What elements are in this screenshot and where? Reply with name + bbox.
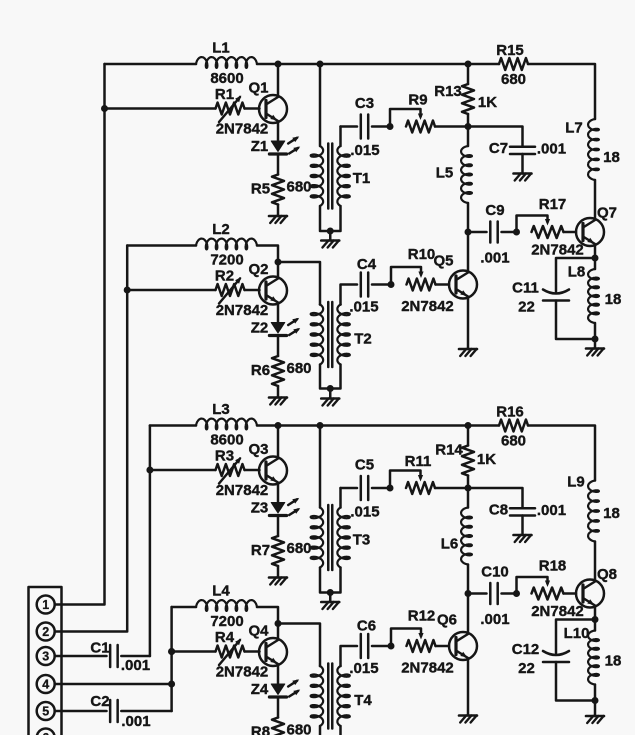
junction Q7 emitter / L8 / C11: [592, 255, 599, 262]
wire Z1 to R5: [277, 154, 280, 175]
wire L10 to ground node: [594, 685, 597, 701]
svg-text:Q2: Q2: [248, 261, 268, 278]
junction base line R4 / bus channel4: [168, 648, 175, 655]
wire node to C9: [468, 231, 487, 234]
inductor L4: [196, 600, 257, 611]
resistor R4 (variable): [216, 639, 245, 666]
value 18 of L9: [603, 505, 620, 522]
wire R13 to node: [467, 114, 470, 127]
value .015 of C5: [350, 504, 379, 521]
value .001 of C10: [480, 611, 509, 628]
wire R5 to ground: [277, 205, 280, 217]
svg-text:R7: R7: [251, 542, 270, 559]
svg-text:C9: C9: [485, 202, 504, 219]
wire Z3 to R7: [277, 516, 280, 537]
wire node to C10: [468, 592, 487, 595]
label L10: [564, 625, 590, 642]
label R11: [405, 453, 432, 470]
resistor R6: [272, 356, 284, 386]
ground below R6: [269, 398, 287, 405]
svg-text:R13: R13: [434, 83, 462, 100]
value 8600 of L1: [210, 70, 243, 87]
inductor L10 18: [588, 631, 599, 685]
junction C4 / R10: [388, 281, 395, 288]
connector pin 6: [37, 729, 55, 735]
svg-text:T3: T3: [353, 532, 371, 549]
wire base line R1 from bus: [105, 107, 216, 110]
resistor R16: [499, 420, 528, 432]
resistor R11 (rheostat): [390, 471, 435, 495]
svg-text:R18: R18: [539, 558, 567, 575]
junction C3 / R9: [387, 123, 394, 130]
label 2N7842 of Q3: [216, 482, 269, 499]
connector pin 3: [37, 647, 55, 665]
value 22 of C12: [518, 660, 535, 677]
label R6: [251, 362, 270, 379]
connector J1 body: [29, 587, 62, 735]
label L1: [212, 40, 230, 57]
resistor R9 (rheostat): [390, 109, 435, 133]
svg-text:C8: C8: [489, 502, 508, 519]
value 680 of R8: [286, 722, 311, 735]
wire node to C8: [468, 488, 523, 508]
value 8600 of L3: [210, 432, 243, 449]
wire C11 bottom connection: [556, 301, 595, 340]
label R9: [408, 92, 427, 109]
ground below R5: [269, 216, 287, 223]
wire C10 to R18 node: [502, 592, 517, 595]
svg-text:R16: R16: [496, 404, 524, 421]
value 18 of L8: [605, 291, 622, 308]
label 2N7842 of Q8: [531, 603, 584, 620]
svg-text:2N7842: 2N7842: [216, 664, 269, 681]
junction R13 bottom node: [465, 123, 472, 130]
svg-text:8600: 8600: [210, 432, 243, 449]
ground below L8: [586, 349, 604, 356]
resistor R18 (rheostat): [517, 577, 564, 600]
wire node to L6: [467, 488, 470, 508]
svg-text:5: 5: [42, 705, 49, 719]
svg-text:R6: R6: [251, 362, 270, 379]
wire T1 secondary to C3: [341, 125, 358, 128]
junction L5 / C9 / Q5 collector: [465, 229, 472, 236]
wire L5 to C9 node: [467, 203, 470, 232]
capacitor C10 .001: [490, 583, 497, 604]
svg-text:2N7842: 2N7842: [531, 242, 584, 259]
value .001 of C8: [537, 502, 566, 519]
capacitor C6 .015: [361, 634, 368, 658]
svg-text:R15: R15: [496, 42, 524, 59]
ground below Q5: [459, 349, 477, 356]
value .001 of C9: [480, 250, 509, 267]
svg-text:.001: .001: [480, 611, 509, 628]
wire Z2 to R6: [277, 336, 280, 357]
wire rail L3 left segment: [150, 424, 196, 427]
label C4: [357, 256, 377, 273]
label 2N7842 of Q5: [401, 298, 454, 315]
wire rail L4 left segment: [172, 606, 196, 609]
ground below C8: [514, 535, 532, 542]
capacitor C2 .001: [110, 700, 118, 722]
svg-text:.015: .015: [349, 660, 378, 677]
inductor L2: [196, 239, 257, 250]
label C3: [355, 95, 374, 112]
svg-text:L7: L7: [565, 120, 583, 137]
svg-text:7200: 7200: [210, 252, 243, 269]
svg-text:680: 680: [501, 433, 526, 450]
wire R16 to L9 corner: [528, 426, 595, 481]
svg-text:R3: R3: [215, 448, 234, 465]
svg-text:Z2: Z2: [251, 320, 269, 337]
label C5: [355, 457, 374, 474]
label Q5: [433, 253, 453, 270]
wire R4 to Q4 base: [245, 650, 260, 653]
svg-text:C12: C12: [512, 641, 540, 658]
svg-text:Q1: Q1: [248, 80, 268, 97]
svg-text:L2: L2: [212, 221, 230, 238]
wire rail to R14: [467, 426, 470, 446]
svg-text:T1: T1: [353, 170, 371, 187]
wire C1 to bus channel3: [121, 655, 150, 658]
svg-text:C4: C4: [357, 256, 377, 273]
label C2: [90, 693, 109, 710]
svg-text:T2: T2: [354, 331, 372, 348]
wire T4 secondary to C6: [341, 646, 358, 666]
junction C10 / R18: [513, 590, 520, 597]
svg-text:3: 3: [42, 650, 49, 664]
junction pin4 / bus channel4: [168, 681, 175, 688]
svg-text:.015: .015: [350, 504, 379, 521]
wire C6 to R12 node: [372, 645, 391, 648]
resistor R14 1K: [462, 446, 474, 476]
wire R17 to Q7 base: [564, 231, 577, 234]
LED Z2: [269, 318, 300, 336]
transistor Q6: [449, 594, 477, 716]
inductor L5: [461, 146, 472, 203]
transistor Q5: [449, 232, 477, 349]
svg-text:R12: R12: [408, 608, 436, 625]
svg-text:L3: L3: [212, 401, 230, 418]
wire R14 to node: [467, 476, 470, 489]
svg-text:C7: C7: [489, 140, 508, 157]
label C11: [512, 280, 539, 297]
junction bus 1 / base line: [101, 105, 108, 112]
svg-text:Z3: Z3: [251, 500, 269, 517]
label Q7: [597, 205, 617, 222]
label 2N7842 of Q7: [531, 242, 584, 259]
wire L2 rail to T2 primary: [278, 262, 320, 305]
label C10: [481, 564, 509, 581]
svg-text:L9: L9: [567, 474, 585, 491]
label R4: [215, 629, 235, 646]
svg-text:18: 18: [603, 505, 620, 522]
label R8: [251, 724, 270, 735]
LED Z4: [269, 679, 300, 697]
svg-text:680: 680: [286, 540, 311, 557]
svg-text:C11: C11: [512, 280, 539, 297]
label 2N7842 of Q6: [401, 660, 454, 677]
wire R11 to R14 node: [435, 487, 468, 490]
svg-text:.001: .001: [480, 250, 509, 267]
ground below L10: [586, 716, 604, 723]
resistor R3 (variable): [216, 457, 245, 484]
wire ground node down: [594, 701, 597, 717]
transformer T1: [311, 64, 350, 241]
resistor R7: [272, 536, 284, 566]
transistor Q3: [259, 426, 287, 503]
svg-text:L4: L4: [212, 583, 230, 600]
transistor Q4: [259, 624, 287, 685]
svg-text:680: 680: [286, 722, 311, 735]
wire node to L5: [467, 127, 470, 147]
capacitor C7 .001: [510, 147, 535, 154]
label L7: [565, 120, 583, 137]
resistor R15: [499, 58, 528, 70]
svg-text:22: 22: [518, 660, 535, 677]
label R2: [215, 268, 234, 285]
label Z1: [251, 138, 269, 155]
wire rail to R16: [257, 424, 499, 427]
svg-text:C1: C1: [90, 640, 109, 657]
label Q1: [248, 80, 268, 97]
svg-text:L10: L10: [564, 625, 590, 642]
wire R9 to R13 node: [435, 125, 468, 128]
junction rail / T1 primary: [317, 61, 324, 68]
value 680 of R16: [501, 433, 526, 450]
capacitor C8 .001: [510, 508, 535, 515]
label C12: [512, 641, 540, 658]
svg-text:R10: R10: [408, 246, 436, 263]
inductor L3: [196, 419, 257, 430]
wire R15 to L7 corner: [528, 64, 595, 119]
svg-text:8600: 8600: [210, 70, 243, 87]
transformer T4: [311, 664, 350, 735]
wire C2 to bus channel4: [121, 710, 171, 713]
wire ground node down: [594, 339, 597, 349]
label Q8: [597, 566, 617, 583]
svg-text:.001: .001: [121, 713, 150, 730]
value .015 of C3: [350, 142, 379, 159]
wire L8 to ground node: [594, 323, 597, 339]
label T2: [354, 331, 372, 348]
wire node to C7: [468, 127, 523, 147]
svg-text:R8: R8: [251, 724, 270, 735]
wire bus channel3 vertical: [149, 426, 152, 657]
wire pin3 to C1: [55, 655, 107, 658]
transistor Q2: [259, 262, 287, 323]
svg-text:C2: C2: [90, 693, 109, 710]
junction rail / R14 top: [465, 422, 472, 429]
svg-text:R14: R14: [435, 442, 463, 459]
svg-text:C6: C6: [357, 618, 376, 635]
wire R3 to Q3 base: [245, 469, 260, 472]
label R10: [408, 246, 436, 263]
transformer T2: [311, 302, 350, 399]
value 1K of R14: [477, 451, 496, 468]
resistor R17 (rheostat): [517, 216, 564, 239]
label Q4: [248, 623, 269, 640]
svg-text:L6: L6: [441, 536, 459, 553]
wire base line R3 from bus: [150, 469, 216, 472]
label C9: [485, 202, 504, 219]
resistor R1 (variable): [216, 96, 245, 123]
resistor R2 (variable): [216, 277, 245, 304]
svg-text:1: 1: [42, 598, 49, 612]
wire rail L1 left segment: [105, 63, 197, 66]
wire rail L2 elbow to collector node: [257, 246, 278, 263]
svg-text:18: 18: [603, 149, 620, 166]
ground below Q6: [459, 716, 477, 723]
label L8: [568, 264, 586, 281]
wire L4 rail to T4 primary: [278, 624, 320, 667]
svg-text:.001: .001: [537, 141, 566, 158]
svg-text:Q8: Q8: [597, 566, 617, 583]
label R3: [215, 448, 234, 465]
svg-text:T4: T4: [354, 692, 372, 709]
value 680 of R6: [286, 360, 311, 377]
label 2N7842 of Q2: [216, 302, 269, 319]
capacitor C11 22: [543, 290, 569, 301]
wire C8 to ground: [521, 516, 524, 536]
transistor Q1: [259, 64, 287, 141]
transformer T2 ground: [321, 399, 339, 406]
wire R7 to ground: [277, 566, 280, 578]
value 7200 of L2: [210, 252, 243, 269]
label L4: [212, 583, 230, 600]
wire rail to R15: [257, 63, 499, 66]
svg-text:Q3: Q3: [248, 441, 268, 458]
value 1K of R13: [478, 94, 497, 111]
label C8: [489, 502, 508, 519]
svg-text:R4: R4: [215, 629, 235, 646]
wire base line R4 from bus: [172, 650, 216, 653]
svg-text:1K: 1K: [478, 94, 497, 111]
wire bus channel4 vertical: [170, 607, 173, 711]
capacitor C12 22: [543, 651, 569, 662]
svg-text:Q6: Q6: [437, 612, 457, 629]
label R15: [496, 42, 524, 59]
label T3: [353, 532, 371, 549]
transformer T2 center-tap junction: [327, 385, 334, 392]
svg-text:C3: C3: [355, 95, 374, 112]
value .001 of C1: [121, 657, 150, 674]
wire base line R2 from bus: [127, 289, 215, 292]
wire L6 to C10 node: [467, 565, 470, 594]
junction R14 bottom node: [465, 485, 472, 492]
label R13: [434, 83, 462, 100]
label R1: [215, 86, 234, 103]
inductor L1: [196, 57, 257, 68]
transformer T1 ground: [321, 241, 339, 248]
wire Z4 to R8: [277, 697, 280, 718]
junction Q2 collector node: [275, 259, 282, 266]
label Z3: [251, 500, 269, 517]
wire C11 top connection: [556, 258, 595, 292]
svg-text:L1: L1: [212, 40, 230, 57]
svg-text:680: 680: [501, 71, 526, 88]
svg-text:4: 4: [42, 678, 49, 692]
value 18 of L7: [603, 149, 620, 166]
LED Z3: [269, 498, 300, 516]
svg-text:C10: C10: [481, 564, 509, 581]
value 680 of R7: [286, 540, 311, 557]
inductor L6: [461, 508, 472, 565]
wire rail L4 elbow to collector node: [257, 607, 278, 624]
junction C6 / R12: [388, 643, 395, 650]
label L2: [212, 221, 230, 238]
junction Q4 collector node: [275, 620, 282, 627]
wire C3 to R9 node: [372, 125, 390, 128]
svg-text:.001: .001: [537, 502, 566, 519]
svg-text:L8: L8: [568, 264, 586, 281]
junction C9 / R17: [513, 229, 520, 236]
wire T3 secondary to C5: [341, 487, 358, 490]
svg-text:2N7842: 2N7842: [401, 660, 454, 677]
svg-text:.001: .001: [121, 657, 150, 674]
svg-text:R11: R11: [405, 453, 432, 470]
ground below C7: [514, 174, 532, 181]
value .015 of C4: [349, 299, 378, 316]
label L3: [212, 401, 230, 418]
label C1: [90, 640, 109, 657]
svg-text:R2: R2: [215, 268, 234, 285]
value .015 of C6: [349, 660, 378, 677]
wire R6 to ground: [277, 386, 280, 398]
svg-text:680: 680: [286, 179, 311, 196]
ground below R7: [269, 578, 287, 585]
wire rail L2 left segment: [127, 244, 196, 247]
wire R1 to Q1 base: [245, 107, 260, 110]
svg-text:6: 6: [42, 731, 49, 735]
wire C12 top connection: [556, 620, 595, 654]
svg-text:1K: 1K: [477, 451, 496, 468]
junction L8 / C11 bottom: [592, 336, 599, 343]
svg-text:2N7842: 2N7842: [216, 302, 269, 319]
resistor R13 1K: [462, 84, 474, 114]
resistor R10 (rheostat): [391, 267, 436, 291]
junction rail / R13 top: [465, 61, 472, 68]
wire C5 to R11 node: [372, 487, 390, 490]
junction bus 4 / base line: [168, 648, 175, 655]
label R12: [408, 608, 436, 625]
wire R12 to Q6 base: [436, 645, 450, 648]
junction Q8 emitter / L10 / C12: [592, 616, 599, 623]
resistor R5: [272, 175, 284, 205]
transformer T3: [311, 426, 350, 603]
label Q3: [248, 441, 268, 458]
capacitor C4 .015: [361, 273, 368, 297]
junction Q1 collector on rail: [275, 61, 282, 68]
svg-text:2N7842: 2N7842: [216, 121, 269, 138]
transistor Q7: [576, 180, 604, 258]
label L5: [436, 165, 454, 182]
wire bus channel2 vertical: [55, 246, 128, 632]
svg-text:.015: .015: [349, 299, 378, 316]
wire T2 secondary to C4: [341, 285, 358, 305]
connector pin 5: [37, 702, 55, 720]
junction Q3 collector on rail: [275, 422, 282, 429]
value 18 of L10: [605, 653, 622, 670]
svg-text:Q7: Q7: [597, 205, 617, 222]
svg-text:18: 18: [605, 653, 622, 670]
svg-text:Q5: Q5: [433, 253, 453, 270]
LED Z1: [269, 136, 300, 154]
label 2N7842 of Q4: [216, 664, 269, 681]
svg-text:680: 680: [286, 360, 311, 377]
wire C4 to R10 node: [372, 283, 391, 286]
wire bus channel1 vertical: [55, 64, 105, 605]
svg-text:2: 2: [42, 625, 49, 639]
